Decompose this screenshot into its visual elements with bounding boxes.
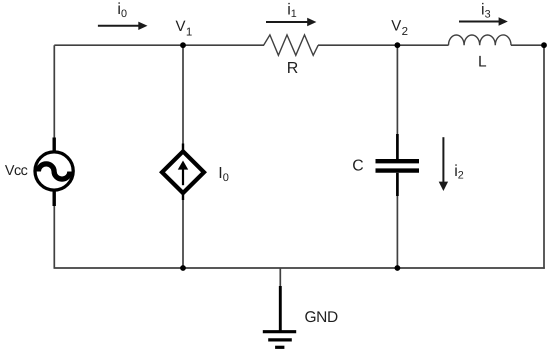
svg-text:i0: i0	[117, 1, 127, 20]
svg-text:C: C	[352, 158, 363, 175]
svg-text:i3: i3	[481, 2, 491, 21]
svg-text:i1: i1	[287, 1, 297, 20]
node top-right junction dot	[541, 42, 547, 48]
ground stem thin	[279, 268, 281, 288]
arrow i0	[98, 25, 140, 27]
wire V2 capacitor branch upper	[396, 45, 398, 136]
svg-text:R: R	[287, 60, 299, 77]
node V1 junction dot	[180, 42, 186, 48]
ground bar 2	[268, 338, 292, 341]
wire left vertical lower	[53, 200, 55, 268]
current source arrow shaft	[182, 167, 184, 185]
wire bottom horizontal	[54, 267, 545, 269]
voltage source bottom stub	[53, 191, 56, 206]
voltage source sine wave	[38, 164, 70, 179]
wire left vertical upper	[53, 45, 55, 140]
capacitor bottom stub	[396, 173, 399, 196]
inductor L arcs	[449, 35, 512, 45]
wire top-left segment	[54, 44, 264, 46]
svg-text:V2: V2	[391, 18, 408, 38]
current source bottom stub	[182, 193, 184, 201]
capacitor top stub	[396, 134, 399, 159]
ground bar 1	[263, 330, 296, 333]
svg-text:I0: I0	[218, 165, 229, 184]
arrow i1	[266, 21, 309, 23]
voltage source top stub	[53, 138, 56, 153]
svg-text:Vcc: Vcc	[5, 163, 28, 179]
arrow i2	[442, 137, 444, 184]
svg-text:V1: V1	[176, 18, 193, 38]
current source I0 diamond	[162, 151, 204, 193]
resistor R zigzag	[264, 35, 319, 55]
svg-text:GND: GND	[305, 309, 338, 326]
ground bar 3	[275, 346, 284, 349]
capacitor C top plate	[376, 159, 420, 163]
node V2 junction dot	[395, 42, 401, 48]
wire V2 capacitor branch lower	[396, 195, 398, 268]
current source top stub	[182, 144, 184, 153]
arrow i3	[459, 21, 501, 23]
node bottom capacitor junction dot	[395, 265, 401, 271]
wire V1 branch lower	[182, 198, 184, 268]
wire V1 branch upper	[182, 45, 184, 146]
voltage source Vcc circle	[35, 152, 73, 190]
ground stem thick	[279, 286, 282, 332]
current source arrowhead	[178, 161, 188, 170]
svg-text:i2: i2	[454, 163, 464, 182]
wire right vertical	[543, 45, 545, 269]
capacitor C bottom plate	[376, 168, 420, 172]
node bottom V1 junction dot	[180, 265, 186, 271]
wire top between resistor and inductor	[318, 44, 449, 46]
wire top-right segment	[511, 44, 544, 46]
svg-text:L: L	[478, 54, 487, 71]
